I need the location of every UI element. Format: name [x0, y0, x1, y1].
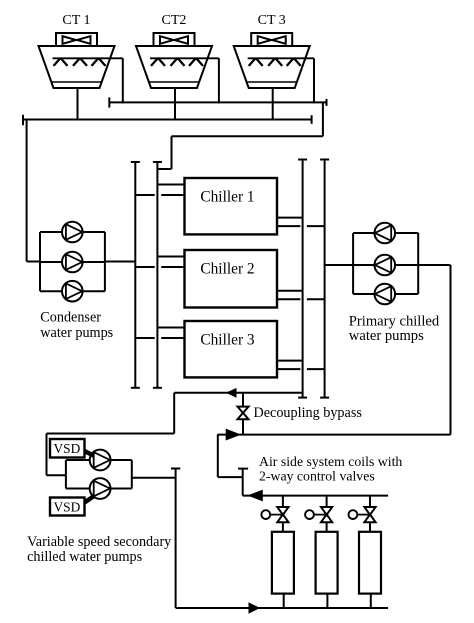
- node: header cap: [153, 387, 162, 389]
- wire: chiller 3 evaporator outlet stub: [277, 360, 303, 362]
- wire: primary pump 3 suction stub: [395, 293, 418, 295]
- wire: into secondary pump inlet manifold: [47, 474, 66, 476]
- svg-text:Air side system coils with: Air side system coils with: [259, 454, 402, 469]
- wire: condenser water supply header (to towers): [109, 101, 326, 103]
- wire: chiller condenser header 1 (outer): [134, 162, 136, 388]
- wire: jog right: [218, 476, 243, 478]
- wire: secondary pump 2 suction stub: [66, 488, 90, 490]
- wire: chiller 3 evaporator inlet stub (crosses inner header): [277, 368, 300, 370]
- node: return header left end cap: [22, 115, 24, 125]
- wire: primary pump 3 discharge stub: [353, 293, 375, 295]
- node: header cap: [131, 387, 140, 389]
- wire: coil 3 to supply line: [370, 594, 372, 608]
- svg-text:Variable speed secondary: Variable speed secondary: [27, 534, 172, 550]
- wire: valve 3 to coil 3: [369, 522, 371, 532]
- wire: decoupling bypass pipe: [242, 393, 244, 407]
- svg-text:CT2: CT2: [162, 13, 187, 28]
- wire: condenser supply drop pipe to CT1 spray: [122, 58, 124, 103]
- wire: secondary pump 1 suction stub: [66, 459, 90, 461]
- wire: CT1 outlet pipe to condenser return header: [77, 88, 79, 121]
- pump CWP1 (condenser water pump): [62, 222, 83, 243]
- arrow: flow left on air-side return: [249, 490, 262, 500]
- wire: condenser supply drop pipe to CT3 spray: [313, 58, 315, 103]
- node: header cap: [131, 161, 140, 163]
- wire: condenser supply drop pipe to CT2 spray: [218, 58, 220, 103]
- wire: secondary pumps inlet manifold: [65, 460, 67, 489]
- wire: coil 1 drop from return line: [282, 496, 284, 507]
- svg-text:chilled water pumps: chilled water pumps: [27, 549, 143, 565]
- wire: condenser pump 2 suction stub: [40, 261, 62, 263]
- wire: chiller 2 evaporator outlet stub: [277, 290, 303, 292]
- coil 1 (air side cooling coil): [272, 532, 294, 594]
- pump PCHWP2 (primary chilled water pump): [375, 255, 396, 276]
- wire: valve 1 to coil 1: [282, 522, 284, 532]
- wire: coil 2 drop from return line: [326, 496, 328, 507]
- wire: supply header down-leg at right: [322, 102, 324, 136]
- wire: chiller 3 condenser outlet stub (crosses inner header): [135, 337, 154, 339]
- arrow: flow right on air-side supply: [249, 603, 259, 613]
- svg-text:Condenser: Condenser: [40, 310, 101, 326]
- wire: secondary pumps outlet manifold: [131, 460, 133, 489]
- wire: chilled water return header to primary pump inlet manifold: [325, 264, 354, 266]
- node: header cap: [153, 161, 162, 163]
- svg-text:Chiller 1: Chiller 1: [200, 189, 254, 206]
- cooling tower CT1 body: [39, 33, 123, 88]
- wire: coil 2 to supply line: [326, 594, 328, 608]
- valve V1 (2-way control valve): [277, 507, 288, 522]
- node: return header right end cap: [311, 115, 313, 124]
- wire: coil 3 drop from return line: [369, 496, 371, 507]
- wire: condenser pumps outlet to chiller condenser header: [105, 261, 135, 263]
- valve V2 actuator: [305, 510, 327, 519]
- valve V1 actuator: [261, 510, 283, 519]
- wire: condenser pumps outlet manifold: [104, 232, 106, 291]
- wire: air-side supply line (bottom): [176, 607, 389, 609]
- node: header cap: [298, 397, 307, 399]
- wire: return down-pipe with top cap: [242, 468, 244, 495]
- wire: primary pumps inlet manifold: [352, 233, 354, 294]
- svg-text:2-way control valves: 2-way control valves: [259, 469, 375, 484]
- wire: primary pump 2 suction stub: [395, 264, 418, 266]
- chiller U2 box: [185, 250, 278, 308]
- chiller U1 box: [185, 178, 278, 234]
- wire: coil 1 to supply line: [283, 594, 285, 608]
- wire: chiller 2 evaporator inlet stub (crosses inner header): [277, 298, 300, 300]
- drive unit VSD2 box: [50, 498, 85, 516]
- wire: chiller condenser header 2 (inner): [156, 162, 158, 388]
- coil 2 (air side cooling coil): [316, 532, 338, 594]
- node: header cap: [298, 159, 307, 161]
- wire: chilled water return line (air side to primary pumps): [218, 434, 451, 436]
- wire: condenser pump 3 suction stub: [40, 290, 62, 292]
- wire: elbow into left header 2: [157, 168, 171, 170]
- wire: secondary pump 1 discharge stub: [110, 459, 132, 461]
- drive shaft VSD2 to pump: [85, 496, 94, 502]
- wire: condenser pump 2 discharge stub: [82, 261, 105, 263]
- wire: supply line run left to secondary pumps: [47, 433, 175, 435]
- valve: decoupling bypass valve: [238, 407, 249, 420]
- pump SCHWP2 (secondary chilled water pump): [90, 478, 111, 499]
- wire: primary pump 2 discharge stub: [353, 264, 375, 266]
- wire: air-side return riser to secondary return: [217, 435, 219, 478]
- wire: chilled water header 2 (outer): [324, 160, 326, 398]
- wire: primary pumps outlet run to right: [418, 264, 450, 266]
- svg-text:VSD: VSD: [54, 500, 81, 515]
- cooling tower CT2 body: [136, 33, 219, 88]
- wire: chilled water header 1 (inner): [302, 160, 304, 398]
- valve V3 (2-way control valve): [364, 507, 375, 522]
- cooling tower CT3 body: [234, 33, 314, 88]
- node: header cap: [320, 159, 329, 161]
- wire: chiller 1 evaporator inlet stub (crosses inner header): [277, 225, 300, 227]
- wire: horizontal run to chiller condenser header: [172, 135, 323, 137]
- svg-text:water pumps: water pumps: [40, 325, 113, 341]
- valve V2 (2-way control valve): [321, 507, 332, 522]
- wire: condenser return down-leg to pumps: [26, 120, 28, 262]
- wire: chiller 1 condenser outlet stub (crosses inner header): [135, 194, 154, 196]
- wire: condenser pump 1 discharge stub: [82, 231, 105, 233]
- wire: primary pump 1 suction stub: [395, 232, 418, 234]
- node: supply header right end cap: [326, 99, 328, 106]
- valve V3 actuator: [349, 510, 371, 519]
- wire: chiller 1 condenser inlet stub: [157, 184, 184, 186]
- wire: secondary pump 2 discharge stub: [110, 488, 132, 490]
- wire: chilled water supply line from header to secondary loop: [174, 392, 302, 394]
- wire: secondary pumps outlet run: [132, 477, 176, 479]
- svg-text:CT 3: CT 3: [258, 13, 286, 28]
- wire: condenser pump 3 discharge stub: [82, 290, 105, 292]
- wire: chiller 3 condenser inlet stub: [157, 327, 184, 329]
- wire: primary pumps outlet manifold: [417, 233, 419, 294]
- wire: into condenser pump inlet manifold: [27, 261, 40, 263]
- svg-text:Decoupling bypass: Decoupling bypass: [254, 405, 363, 421]
- svg-text:Chiller 2: Chiller 2: [200, 261, 254, 278]
- pump PCHWP3 (primary chilled water pump): [375, 284, 396, 305]
- pump CWP3 (condenser water pump): [62, 281, 83, 302]
- svg-text:CT 1: CT 1: [62, 13, 90, 28]
- chiller U3 box: [185, 321, 278, 377]
- wire: valve 2 to coil 2: [326, 522, 328, 532]
- arrow: flow right on return line: [226, 429, 240, 439]
- wire: secondary supply down-pipe with top cap: [175, 468, 177, 608]
- wire: primary pump 1 discharge stub: [353, 232, 375, 234]
- pump SCHWP1 (secondary chilled water pump): [90, 450, 111, 471]
- arrow: flow left on chilled water supply line: [227, 389, 236, 397]
- wire: chiller 2 condenser inlet stub: [157, 256, 184, 258]
- pump CWP2 (condenser water pump): [62, 252, 83, 273]
- wire: air-side return line (top): [243, 495, 388, 497]
- pump PCHWP1 (primary chilled water pump): [375, 223, 396, 244]
- node: supply header left end cap: [108, 97, 110, 107]
- wire: CT2 outlet pipe to condenser return header: [174, 88, 176, 121]
- wire: condenser water return header (from towers): [23, 119, 312, 121]
- svg-text:VSD: VSD: [54, 441, 81, 456]
- wire: right riser down to secondary return line: [450, 265, 452, 435]
- wire: chiller 2 condenser outlet stub (crosses inner header): [135, 266, 154, 268]
- wire: condenser pump 1 suction stub: [40, 231, 62, 233]
- wire: CT3 outlet pipe to condenser return header: [272, 88, 274, 121]
- drive unit VSD1 box: [50, 439, 85, 458]
- drive shaft VSD1 to pump: [85, 451, 94, 456]
- svg-text:Chiller 3: Chiller 3: [200, 332, 255, 349]
- wire: chiller 1 evaporator outlet stub: [277, 217, 303, 219]
- coil 3 (air side cooling coil): [359, 532, 381, 594]
- wire: elbow down: [171, 136, 173, 169]
- wire: down-leg at far left to pump suction: [46, 434, 48, 476]
- wire: supply line down-leg: [173, 393, 175, 434]
- node: header cap: [320, 397, 329, 399]
- svg-text:water pumps: water pumps: [349, 328, 424, 344]
- wire: condenser pumps inlet manifold: [39, 232, 41, 291]
